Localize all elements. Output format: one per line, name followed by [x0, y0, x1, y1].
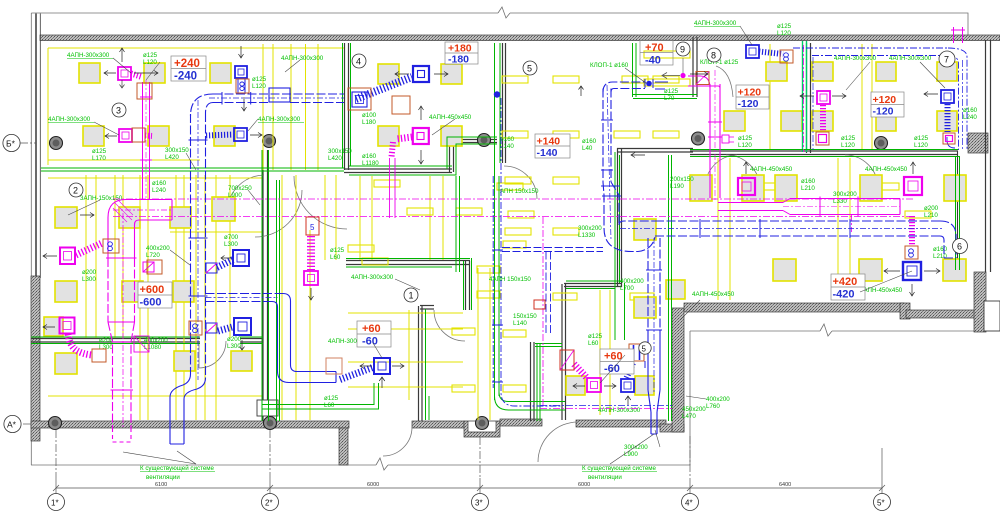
- door arc room 8 right of wall: [716, 66, 733, 97]
- svg-text:L170: L170: [92, 155, 106, 162]
- blue duct B2 s-jog: [170, 374, 206, 440]
- green main line A along y171: [41, 167, 344, 169]
- svg-text:300x200: 300x200: [624, 444, 648, 451]
- svg-text:L120: L120: [143, 59, 157, 66]
- wall closet x420: [418, 306, 420, 421]
- label box +140: [535, 134, 570, 159]
- door arc mid-bottom room: [538, 422, 578, 462]
- yellow horizontals room1: [348, 312, 463, 314]
- damper room4 mid: [392, 96, 410, 114]
- axis bubble 2: [262, 494, 279, 511]
- arrow klop left: [631, 153, 645, 158]
- svg-text:L190: L190: [670, 183, 684, 190]
- magenta duct B centerline: [113, 209, 172, 211]
- svg-text:АПН 150х150: АПН 150х150: [500, 188, 539, 195]
- svg-text:4АПН-450х450: 4АПН-450х450: [865, 166, 908, 173]
- wall bottom mid3: [576, 420, 666, 427]
- blue flex midbottom vertical: [627, 363, 634, 378]
- arrow right a up: [744, 162, 749, 174]
- svg-text:L120: L120: [777, 30, 791, 37]
- door arc right zone room b: [845, 155, 878, 188]
- svg-text:L1330: L1330: [578, 232, 596, 239]
- svg-text:L120: L120: [738, 142, 752, 149]
- green mid-bottom room top wall: [566, 280, 622, 282]
- blue flex room7 right down: [945, 104, 951, 132]
- damper on duct C b: [92, 349, 106, 362]
- slot room5 r1: [502, 76, 528, 83]
- door arc bottom wall main: [383, 427, 412, 456]
- wall right zone right edge x957: [957, 151, 959, 272]
- svg-text:400x200: 400x200: [620, 278, 644, 285]
- svg-text:L900: L900: [228, 192, 242, 199]
- blue riser top-left: [237, 78, 239, 94]
- blue diffuser top-left r2: [234, 128, 247, 141]
- wall bottom mid2: [500, 419, 542, 426]
- slot room5 r4: [505, 228, 531, 235]
- label box +600: [138, 282, 172, 309]
- arrow midbottom right: [604, 384, 616, 389]
- svg-text:450x200: 450x200: [682, 406, 706, 413]
- circled number 9: [676, 42, 690, 56]
- blue dash line x501 vertical: [501, 98, 562, 406]
- svg-text:ø100: ø100: [362, 112, 377, 119]
- blue duct B3 elbow right: [278, 365, 337, 383]
- magenta diffuser left wall 1: [60, 248, 75, 265]
- fire damper KL corridor: [534, 300, 545, 309]
- svg-text:5*: 5*: [877, 499, 885, 508]
- svg-text:ø125: ø125: [92, 148, 107, 155]
- blue dash branch y249: [502, 247, 603, 249]
- svg-text:+120: +120: [738, 87, 762, 99]
- blue flex cluster c2: [218, 327, 234, 332]
- arrow room4 down: [419, 150, 424, 164]
- blue diffuser top-left r1: [235, 66, 247, 78]
- blue diffuser room4: [413, 66, 429, 82]
- svg-text:L720: L720: [146, 252, 160, 259]
- svg-text:ø200: ø200: [227, 336, 242, 343]
- green room 70-40 bottom wall: [633, 94, 697, 96]
- threshold box at wall x263: [257, 400, 278, 416]
- yellow horizontals left zone: [48, 177, 262, 179]
- green room4 left wall: [350, 43, 352, 166]
- wall partition x693: [692, 37, 694, 97]
- wall A closet left: [530, 342, 532, 421]
- top boundary line left part: [31, 12, 498, 14]
- arrow td1 left: [104, 71, 116, 76]
- magenta narrow duct right y202: [718, 202, 783, 204]
- magenta diffuser right a: [738, 178, 755, 195]
- blue silencer on B1: [269, 88, 290, 102]
- green room 70-40 left wall: [632, 43, 634, 97]
- axis bubble 4: [682, 494, 699, 511]
- wall partition x502 room5 left: [502, 43, 504, 163]
- green x277 vertical along wall: [276, 180, 278, 421]
- svg-text:300x150: 300x150: [328, 148, 352, 155]
- fire damper 5 midbottom: [629, 344, 644, 361]
- svg-text:6000: 6000: [367, 482, 379, 488]
- svg-text:ø160: ø160: [933, 246, 948, 253]
- green vertical x456: [455, 176, 457, 272]
- yellow verticals mid-left zone: [85, 175, 87, 338]
- slot mid corridor: [407, 208, 433, 215]
- svg-text:ø125: ø125: [914, 135, 929, 142]
- svg-text:3*: 3*: [475, 499, 483, 508]
- outside box right wall: [984, 301, 1000, 331]
- wall pier right mid: [968, 133, 988, 153]
- desk +420 room: [773, 259, 796, 281]
- bottom boundary mid: [388, 331, 690, 465]
- svg-text:L420: L420: [328, 155, 342, 162]
- desk room4: [378, 64, 399, 84]
- svg-text:К существующей системе: К существующей системе: [582, 465, 657, 472]
- slot bars room 70-40: [644, 51, 690, 58]
- svg-text:-120: -120: [738, 98, 759, 110]
- arrow magenta r1 up: [120, 48, 125, 62]
- desk top-left r2: [83, 126, 104, 146]
- svg-text:400x200: 400x200: [146, 245, 170, 252]
- svg-text:ø125: ø125: [841, 135, 856, 142]
- blue duct B1 horizontal top-left: [213, 93, 344, 95]
- green closet verticals x425: [425, 309, 427, 420]
- magenta branch transition 400x200: [134, 336, 149, 352]
- blue stub midbottom: [644, 361, 646, 368]
- green mid bottom horizontal x500-560: [508, 401, 565, 403]
- blue loop room7 top horizontal: [793, 47, 948, 49]
- column B-axis left: [50, 137, 63, 150]
- svg-text:L60: L60: [588, 340, 599, 347]
- svg-text:6000: 6000: [578, 482, 590, 488]
- blue flex room4 diagonal: [356, 77, 412, 99]
- label box +60 room1: [357, 321, 391, 348]
- green bottom small room outline: [262, 383, 374, 405]
- damper room1 tan: [326, 358, 342, 374]
- magenta duct C flange ticks: [106, 257, 137, 259]
- svg-text:4АПН-300х300: 4АПН-300х300: [281, 55, 324, 62]
- svg-text:ø125: ø125: [738, 135, 753, 142]
- svg-text:L60: L60: [330, 254, 341, 261]
- wall bottom connector to right room: [660, 424, 684, 432]
- svg-text:ø160: ø160: [582, 138, 597, 145]
- bottom boundary left: [31, 464, 376, 466]
- door arc room 8 lower: [705, 155, 737, 187]
- green pair wall x804: [802, 41, 804, 152]
- svg-text:-60: -60: [362, 336, 378, 348]
- wall room1 door jamb: [420, 305, 434, 307]
- wall mid-bottom room top: [564, 283, 622, 285]
- svg-text:L240: L240: [152, 187, 166, 194]
- yellow verticals mid-bottom: [599, 290, 601, 415]
- svg-text:300x200: 300x200: [578, 225, 602, 232]
- magenta flex right b down: [909, 216, 915, 245]
- svg-text:L1180: L1180: [362, 160, 379, 167]
- magenta wide duct right 300x200: [790, 198, 900, 200]
- svg-text:5: 5: [527, 64, 532, 74]
- magenta riser room4: [389, 158, 391, 218]
- wall long right zone bottom y152: [690, 150, 958, 152]
- blue diffuser right zone big: [903, 262, 921, 280]
- svg-text:L470: L470: [682, 413, 696, 420]
- svg-text:Б*: Б*: [6, 139, 16, 149]
- LAYER: yellow slot diffusers: [348, 51, 931, 392]
- LAYER: magenta ducts: [60, 27, 966, 442]
- desk mid-left c2: [119, 207, 140, 228]
- damper top-left on riser: [137, 83, 152, 99]
- green elbow at x495 bottom to right: [495, 396, 561, 410]
- circled number 1: [404, 288, 418, 302]
- yellow verticals top-left zone: [262, 44, 264, 170]
- column bottom A-axis 1: [49, 417, 62, 430]
- svg-text:8: 8: [711, 51, 716, 61]
- damper 400x200 left: [147, 260, 162, 274]
- axis bubble 3: [472, 494, 489, 511]
- svg-text:ø160: ø160: [362, 153, 377, 160]
- svg-text:+140: +140: [537, 136, 561, 148]
- magenta dash riser x851: [851, 215, 853, 232]
- arrow c2 down: [240, 340, 245, 350]
- green room4 jog: [450, 144, 497, 175]
- svg-text:300x150: 300x150: [165, 147, 189, 154]
- label box +120 b: [871, 92, 904, 118]
- down arrow from top diffuser: [120, 80, 125, 88]
- magenta flex top-left r2: [145, 133, 152, 140]
- magenta flex left wall 1: [76, 243, 102, 255]
- circled number 5 small midbottom: [639, 342, 651, 354]
- column right zone: [875, 137, 888, 150]
- magenta duct B horizontal 700x250: [108, 200, 172, 259]
- svg-text:ø125: ø125: [588, 333, 603, 340]
- black arrows: [43, 46, 940, 405]
- svg-text:L120: L120: [914, 142, 928, 149]
- svg-text:ø125: ø125: [664, 88, 679, 95]
- slot room5 r3: [505, 177, 531, 184]
- left boundary vertical: [30, 13, 32, 465]
- magenta dash vertical x543: [542, 217, 544, 407]
- blue flex room1: [340, 367, 374, 380]
- wall step right: [900, 303, 910, 319]
- svg-text:L40: L40: [582, 145, 593, 152]
- slot room1: [348, 245, 374, 252]
- blue diffuser room7 right: [941, 90, 954, 103]
- damper klop room 70-40 at wall: [696, 72, 709, 85]
- svg-text:L70: L70: [664, 95, 675, 102]
- svg-text:L180: L180: [362, 119, 376, 126]
- wall left upper thin: [35, 14, 37, 279]
- svg-text:-240: -240: [174, 71, 197, 83]
- svg-text:КЛОП-1 ø160: КЛОП-1 ø160: [590, 62, 629, 69]
- magenta long dash-dot branch line upper: [113, 198, 913, 200]
- svg-text:-40: -40: [645, 55, 661, 67]
- damper room7 magenta riser: [816, 132, 829, 145]
- blue duct B2 vertical: [190, 114, 192, 374]
- svg-text:6100: 6100: [155, 482, 167, 488]
- LAYER: green ducts and texts: [31, 41, 960, 421]
- arrow room7 diff right2: [832, 94, 846, 99]
- LAYER: desks: [44, 62, 966, 395]
- arrow room4 up: [419, 106, 424, 120]
- arrow td1 down: [242, 97, 247, 111]
- svg-text:6400: 6400: [779, 482, 791, 488]
- blue corridor duct horizontal: [655, 220, 940, 222]
- svg-text:9: 9: [680, 45, 685, 55]
- axis bubble A: [4, 415, 21, 432]
- svg-text:-140: -140: [537, 147, 558, 159]
- blue loop room7 right vertical: [948, 48, 967, 150]
- green on wall x263: [261, 150, 263, 421]
- yellow verticals top right rooms: [861, 44, 863, 150]
- break symbol top: [498, 7, 510, 18]
- blue branch vertical x648 down: [647, 238, 649, 330]
- svg-text:L210: L210: [801, 185, 815, 192]
- slot mid-bottom room: [553, 293, 577, 300]
- green wall A mid-bottom: [536, 344, 538, 421]
- arrow t2 right: [690, 72, 708, 77]
- circled number 4: [352, 54, 366, 68]
- arrow room1 top down: [309, 288, 314, 300]
- blue flex cluster c1: [217, 260, 233, 268]
- svg-text:L300: L300: [227, 343, 241, 350]
- magenta duct B corner hatch: [113, 200, 133, 222]
- magenta damper5 flex room1: [307, 236, 315, 270]
- svg-text:+420: +420: [833, 276, 858, 288]
- slot right zone mid: [752, 183, 778, 190]
- svg-text:+600: +600: [140, 284, 165, 296]
- svg-text:4АПН 150х150: 4АПН 150х150: [489, 276, 531, 283]
- wall bottom right section: [684, 303, 904, 312]
- wall mid zone y149 horizontal: [617, 148, 693, 150]
- axis bubble 5: [874, 494, 891, 511]
- magenta diffuser right b: [904, 177, 922, 195]
- svg-text:-180: -180: [448, 54, 469, 66]
- wall bottom left section: [31, 421, 349, 428]
- blue duct B2 below wall: [170, 440, 184, 444]
- arrow leftwall1 left: [43, 254, 57, 259]
- svg-text:1: 1: [409, 291, 414, 301]
- arrow topleft r2 left: [105, 134, 117, 139]
- blue dash drop x548: [545, 252, 547, 336]
- svg-text:L420: L420: [165, 154, 179, 161]
- yellow verticals right of room1: [477, 268, 479, 420]
- svg-text:ø125: ø125: [777, 23, 792, 30]
- yellow ceiling line top zone: [48, 47, 344, 49]
- svg-text:L120: L120: [841, 142, 855, 149]
- arrow room1 diff right: [392, 364, 404, 369]
- green along room1 top wall: [346, 258, 470, 260]
- magenta duct C vertical to existing: [108, 322, 135, 428]
- svg-text:4АПН-300х300: 4АПН-300х300: [694, 20, 737, 27]
- arrow room4 right: [434, 72, 448, 77]
- fire damper 5 room1: [306, 217, 319, 235]
- svg-text:2*: 2*: [265, 499, 273, 508]
- svg-text:ø160: ø160: [152, 180, 167, 187]
- arrow td1 right: [134, 71, 158, 76]
- svg-text:L300: L300: [82, 276, 96, 283]
- door arc bottom-left room: [199, 341, 226, 368]
- LAYER: blue ducts: [170, 45, 967, 444]
- arrow +420 diff right: [924, 269, 940, 274]
- svg-text:2: 2: [73, 186, 78, 196]
- magenta flex room7 down: [820, 105, 826, 132]
- svg-text:4АПН-300х300: 4АПН-300х300: [889, 55, 932, 62]
- svg-text:4АПН-300х300: 4АПН-300х300: [598, 407, 641, 414]
- svg-text:-600: -600: [140, 297, 162, 309]
- desk top-left r1: [79, 63, 100, 83]
- svg-text:-420: -420: [833, 289, 855, 301]
- circled number 3: [112, 103, 126, 117]
- arrow topleft r2 right: [250, 133, 262, 138]
- damper right room7 riser: [943, 133, 955, 144]
- leader lines to existing system left: [123, 434, 654, 464]
- green x618 vertical duct: [614, 152, 616, 340]
- svg-text:L900: L900: [624, 451, 638, 458]
- svg-text:К существующей системе: К существующей системе: [140, 465, 215, 472]
- blue dash line x493 vertical: [492, 176, 494, 388]
- wall right lower horizontal: [906, 310, 980, 318]
- yellow verticals room1 zone: [359, 176, 361, 260]
- svg-text:+70: +70: [645, 42, 664, 54]
- magenta thin riser duct x142-150 top-left: [142, 82, 144, 199]
- wall vertical mid-right hatched: [672, 308, 684, 432]
- svg-text:ø160: ø160: [801, 178, 816, 185]
- magenta dash line wall x804: [803, 45, 805, 152]
- svg-text:L210: L210: [933, 253, 947, 260]
- arrow room1 diff left: [360, 364, 372, 369]
- damper midbottom room: [560, 350, 574, 370]
- bottom boundary right with break: [690, 330, 820, 332]
- blue diffuser room6 supply: [746, 45, 759, 58]
- slot right of room1: [503, 241, 526, 248]
- svg-text:4АПН-450х450: 4АПН-450х450: [860, 287, 903, 294]
- magenta fitting midleft: [143, 262, 154, 272]
- label box +120 a: [736, 85, 769, 110]
- blue elbow below room7: [947, 137, 955, 148]
- wall room1 right: [465, 261, 467, 310]
- green along room4 bottom: [349, 165, 452, 167]
- svg-text:7: 7: [944, 55, 949, 65]
- arrow room5 diffmid down: [625, 396, 631, 405]
- blue room5 duct vertical x603: [602, 89, 604, 183]
- column mid room5 left: [478, 134, 491, 147]
- blue flex top-left r2: [206, 135, 233, 136]
- green pair at wall x672: [668, 155, 670, 421]
- circled number 7: [939, 51, 955, 67]
- svg-text:ø125: ø125: [252, 76, 267, 83]
- door arc room1 right: [434, 310, 465, 341]
- wall partition x806 between 120 rooms: [806, 43, 808, 153]
- column mid room5 right: [692, 132, 705, 145]
- damper on duct C a: [103, 239, 119, 253]
- svg-text:ø700: ø700: [224, 234, 239, 241]
- green right zone bottom wall line: [690, 149, 959, 151]
- magenta diffuser room4: [413, 128, 429, 144]
- desk mid-left c1: [55, 207, 77, 228]
- door arc room5 left wall: [504, 166, 537, 199]
- arrow 7040 up: [579, 86, 584, 96]
- wall left zone room top y340: [31, 338, 200, 340]
- blue duct x494-501 flanges: [492, 249, 503, 251]
- svg-text:+60: +60: [362, 323, 381, 335]
- arrow leftwall2 left: [79, 253, 93, 258]
- wall partition room4 jog up: [449, 139, 451, 172]
- circled number 5 room5: [523, 61, 537, 75]
- svg-text:-60: -60: [604, 363, 620, 375]
- svg-text:L760: L760: [706, 403, 720, 410]
- wall left lower hatched: [31, 276, 40, 441]
- svg-text:5: 5: [642, 345, 647, 354]
- svg-text:ø200: ø200: [924, 205, 939, 212]
- slot room5 r2: [502, 131, 528, 138]
- wall right lower vertical block: [974, 272, 986, 332]
- top boundary line right part: [510, 13, 968, 35]
